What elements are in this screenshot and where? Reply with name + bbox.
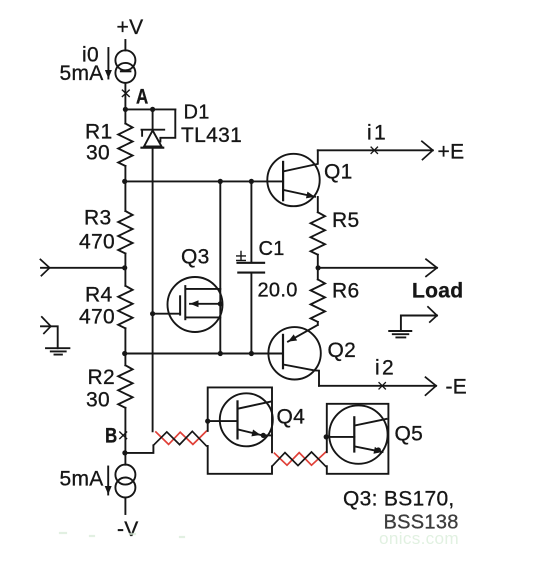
- node B x-marker: [120, 432, 127, 439]
- Q4 emitter stub to box: [263, 434, 272, 436]
- input port arrowhead: [40, 259, 49, 275]
- node A x-marker: [122, 90, 129, 96]
- svg-text:+E: +E: [438, 141, 465, 164]
- junction D1 top: [150, 107, 155, 112]
- Q4 emitter path with arrow: [238, 430, 260, 435]
- Q3 body lead with arrow: [190, 303, 220, 305]
- capacitor C1 plus sign: [237, 252, 246, 261]
- diode D1 TL431 symbol: [142, 109, 176, 147]
- junction Q3 gate on anode line: [150, 311, 155, 316]
- resistor R4 zigzag: [118, 286, 132, 329]
- i2 x-marker: [379, 383, 385, 389]
- svg-text:-E: -E: [446, 376, 468, 399]
- i0 current direction arrow: [107, 48, 109, 79]
- wire R1 to top bus: [124, 166, 126, 211]
- transistor Q1 circle: [267, 154, 319, 206]
- svg-text:R6: R6: [332, 280, 359, 303]
- wire current source to node A: [124, 83, 126, 124]
- resistor red zigzag B-to-Q4 red strand: [156, 431, 206, 444]
- svg-text:30: 30: [86, 389, 110, 412]
- svg-text:Q2: Q2: [328, 339, 357, 362]
- svg-text:R4: R4: [85, 284, 112, 307]
- svg-text:TL431: TL431: [181, 124, 242, 147]
- Q2 base bar: [282, 335, 284, 368]
- -E output wire: [319, 385, 436, 387]
- Q3 gate bar: [179, 296, 181, 314]
- capacitor C1 plates: [238, 263, 265, 273]
- vertical line Q3 drain-source: [219, 181, 221, 353]
- svg-text:i2: i2: [375, 357, 394, 380]
- +E output wire: [318, 149, 433, 151]
- svg-text:onics.com: onics.com: [379, 529, 459, 548]
- Q2 collector path: [285, 365, 319, 386]
- i1 x-marker: [371, 147, 377, 153]
- bottom bus wire to Q2 base: [124, 353, 283, 355]
- resistor R1 zigzag: [118, 124, 132, 167]
- Q5 collector path: [355, 419, 386, 426]
- vertical line C1 top: [250, 181, 252, 261]
- D1 anode wire long vertical to red resistor: [152, 148, 154, 431]
- transistor Q2 circle: [268, 327, 320, 379]
- resistor R2 zigzag: [118, 365, 132, 408]
- Q5 base wire: [326, 436, 354, 438]
- svg-text:Q5: Q5: [395, 423, 424, 446]
- wire R4 to bottom bus: [124, 328, 126, 365]
- top bus wire to Q1 base: [124, 180, 283, 182]
- load arrowhead: [426, 259, 437, 276]
- svg-text:20.0: 20.0: [258, 280, 298, 302]
- junction Q3 body on vertical: [218, 301, 223, 306]
- svg-text:A: A: [136, 86, 149, 109]
- junction R1 bottom on top bus: [122, 179, 127, 184]
- Q5 emitter junction: [376, 447, 381, 452]
- junction top bus Q3 drain line: [218, 179, 223, 184]
- svg-text:R1: R1: [85, 121, 112, 144]
- Q1 base bar: [282, 162, 284, 200]
- wire Q1 emitter to R5: [317, 197, 319, 212]
- svg-text:Q3: Q3: [181, 246, 210, 269]
- junction R4 bottom on bottom bus: [122, 351, 127, 356]
- Q2 emitter path from R6 with arrow into bar: [288, 322, 318, 342]
- left ground bars: [46, 348, 69, 354]
- svg-text:470: 470: [79, 306, 115, 329]
- vertical line C1 bottom: [250, 273, 252, 354]
- wire current source to -V: [124, 498, 126, 515]
- Q3 channel bar: [184, 286, 186, 319]
- Q4 base junction: [205, 419, 210, 424]
- left ground arrowhead: [42, 317, 51, 334]
- load output wire: [318, 267, 437, 269]
- resistor red zigzag Q4-to-Q5 red strand: [275, 452, 326, 465]
- transistor Q4 box outline: [208, 387, 272, 473]
- transistor Q5 box outline: [327, 404, 389, 474]
- svg-text:5mA: 5mA: [60, 468, 104, 491]
- -E arrowhead: [426, 377, 437, 395]
- junction bottom bus C1 line: [249, 351, 254, 356]
- resistor red zigzag B-to-Q4 black strand: [154, 431, 207, 446]
- wire +V to current source I0: [124, 40, 126, 50]
- junction node B wire: [122, 450, 127, 455]
- mosfet Q3 circle: [168, 277, 223, 332]
- load ground arrowhead: [428, 307, 437, 322]
- input wire: [41, 267, 125, 269]
- Q5 base junction: [324, 434, 329, 439]
- svg-text:Q4: Q4: [277, 406, 306, 429]
- left ground arrow wire: [41, 326, 58, 348]
- svg-text:R2: R2: [88, 366, 115, 389]
- resistor R6 zigzag: [311, 279, 325, 322]
- svg-text:30: 30: [86, 142, 110, 165]
- wire R3 to input node: [124, 254, 126, 286]
- svg-text:C1: C1: [259, 238, 285, 260]
- Q3 gate wire: [153, 313, 181, 315]
- svg-text:5mA: 5mA: [60, 62, 104, 85]
- junction node A: [123, 107, 128, 112]
- svg-text:+V: +V: [117, 16, 144, 39]
- Q1 emitter path with arrow: [284, 190, 315, 197]
- Q3 source lead: [186, 316, 220, 318]
- Q4 base bar: [236, 401, 238, 438]
- resistor R3 zigzag: [118, 211, 132, 254]
- Q1 collector path: [284, 150, 318, 171]
- svg-text:Q3: BS170,: Q3: BS170,: [343, 488, 455, 511]
- resistor red zigzag Q4-to-Q5 black strand: [272, 452, 326, 466]
- junction bottom bus Q3 source line: [218, 351, 223, 356]
- resistor R5 zigzag: [311, 212, 325, 255]
- wire node B to red resistor riser: [125, 445, 153, 453]
- svg-text:i1: i1: [367, 122, 386, 145]
- watermark dots: [60, 533, 184, 537]
- svg-text:-V: -V: [117, 518, 139, 541]
- Q4 emitter junction: [261, 433, 266, 438]
- Q3 drain lead: [186, 288, 220, 290]
- transistor Q5 circle: [329, 405, 387, 463]
- bottom current direction arrow: [107, 467, 109, 495]
- wire R5 to load node: [317, 255, 319, 280]
- svg-text:B: B: [105, 425, 118, 448]
- load ground bars: [389, 331, 411, 337]
- Q5 emitter path with arrow: [355, 447, 382, 453]
- junction top bus C1 line: [249, 179, 254, 184]
- junction load node: [316, 265, 321, 270]
- svg-text:D1: D1: [184, 102, 210, 124]
- svg-text:Q1: Q1: [324, 161, 353, 184]
- junction input node: [122, 265, 127, 270]
- wire node A to D1 cathode: [125, 108, 175, 110]
- +E arrowhead: [422, 141, 433, 159]
- svg-text:470: 470: [79, 231, 115, 254]
- transistor Q4 circle: [220, 393, 273, 446]
- wire R2 to node B and current source: [124, 408, 126, 465]
- load ground wire: [401, 316, 437, 332]
- svg-text:Load: Load: [412, 280, 463, 303]
- svg-text:R5: R5: [332, 209, 359, 232]
- svg-text:R3: R3: [84, 207, 111, 230]
- current source I1 bottom (two overlapping circles with dash): [115, 465, 135, 498]
- current source I0 (two overlapping circles with dash): [115, 50, 135, 83]
- Q4 collector path: [238, 402, 270, 409]
- Q5 base bar: [353, 417, 355, 451]
- Q4 base wire: [208, 420, 238, 422]
